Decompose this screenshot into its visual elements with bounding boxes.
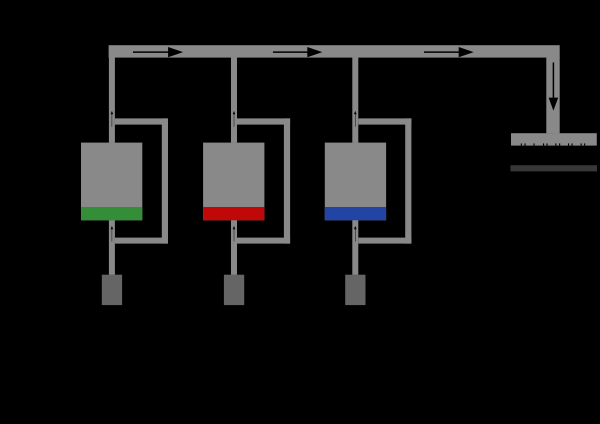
- tank T2 body: [203, 143, 264, 221]
- outlet pipe below tank T1: [109, 220, 115, 275]
- bypass loop pipe around tank T1: [115, 118, 168, 243]
- spray head bar: [511, 133, 597, 145]
- outlet pipe below tank T3: [352, 220, 358, 275]
- flow arrow 2 on manifold: [273, 47, 322, 57]
- flow arrow on outlet pipe T3: [354, 226, 357, 242]
- riser pipe to spray head (right vertical): [546, 57, 559, 133]
- flow arrow on outlet pipe T2: [233, 226, 236, 242]
- flow arrow on drop pipe T1: [111, 111, 114, 127]
- flow arrow down riser: [549, 62, 559, 110]
- manifold supply pipe (top horizontal): [109, 45, 560, 57]
- pump P2: [224, 275, 244, 305]
- pump P1: [102, 275, 122, 305]
- flow arrow 1 on manifold: [133, 47, 183, 57]
- drop pipe to tank T3: [352, 57, 358, 143]
- tank T2 red liquid: [203, 207, 264, 220]
- outlet pipe below tank T2: [231, 220, 237, 275]
- tank T3 blue liquid: [325, 207, 386, 220]
- pump P3: [345, 275, 365, 305]
- flow arrow on drop pipe T3: [354, 111, 357, 127]
- drop pipe to tank T1: [109, 57, 115, 143]
- tank T1 body: [81, 143, 142, 221]
- flow arrow 3 on manifold: [424, 47, 474, 57]
- bypass loop pipe around tank T2: [237, 118, 290, 243]
- flow arrow on drop pipe T2: [233, 111, 236, 127]
- tank T1 green liquid: [81, 207, 142, 220]
- drop pipe to tank T2: [231, 57, 237, 143]
- flow arrow on outlet pipe T1: [111, 226, 114, 242]
- bypass loop pipe around tank T3: [358, 118, 411, 243]
- substrate bar below spray head: [511, 165, 598, 171]
- tank T3 body: [325, 143, 386, 221]
